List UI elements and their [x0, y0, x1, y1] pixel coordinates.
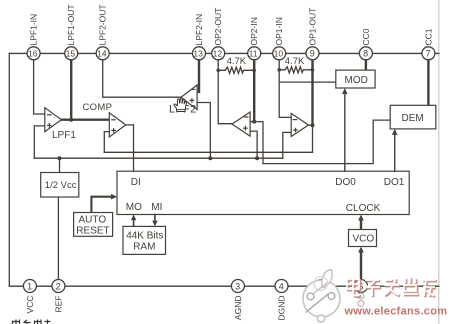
wire top pin bus	[9, 52, 439, 54]
node half-Vcc tap	[58, 156, 62, 160]
arrowhead VCO into CLOCK	[358, 215, 364, 221]
wire pin10 tap to MOD input	[279, 81, 336, 83]
pin 3 AGND	[231, 280, 244, 321]
svg-text:13: 13	[193, 49, 203, 59]
svg-text:8: 8	[363, 49, 368, 59]
wire VCO to CLOCK (thick arrow)	[360, 218, 362, 230]
wire MO arrow RAM to block	[133, 218, 135, 227]
node R2 right	[311, 68, 315, 72]
pin 4 DGND	[275, 280, 288, 321]
pin 15 LPF1-OUT	[65, 4, 78, 59]
wire pin12 OP2-OUT down to OP2 apex	[218, 60, 232, 124]
svg-text:MO: MO	[126, 202, 142, 213]
block DEM	[390, 105, 436, 129]
svg-text:AGND: AGND	[233, 296, 243, 321]
wire pin7 CC1 to DEM top (thick)	[427, 60, 429, 106]
svg-text:OP2-IN: OP2-IN	[249, 17, 259, 45]
svg-text:14: 14	[97, 49, 107, 59]
svg-text:7: 7	[426, 49, 431, 59]
block AUTO RESET	[74, 213, 113, 237]
wire half-Vcc block bottom to pin2 REF	[57, 197, 59, 280]
wire LPF1 output to COMP minus (thick)	[61, 118, 109, 120]
svg-text:VCO: VCO	[353, 234, 375, 245]
pin 13 LPF2-IN	[193, 14, 206, 60]
svg-text:15: 15	[66, 49, 76, 59]
svg-text:OP1-IN: OP1-IN	[274, 17, 284, 45]
svg-text:CC0: CC0	[361, 28, 371, 45]
wire pin15 LPF1-OUT vertical (thick)	[70, 60, 72, 120]
pin 14 LPF2-OUT	[96, 4, 109, 59]
svg-text:AUTO: AUTO	[79, 215, 107, 226]
svg-text:OP1-OUT: OP1-OUT	[308, 8, 318, 46]
node LPF1 out / pin15	[69, 118, 73, 122]
pin 6 OSC	[355, 280, 368, 293]
op-amp OP2	[232, 112, 250, 136]
pin 10 OP1-IN	[273, 17, 286, 60]
mouse hand cursor over LPF2	[174, 98, 187, 112]
block digital core U1	[117, 171, 409, 214]
wire pin16 to LPF1 minus input	[34, 60, 45, 114]
block VCO	[349, 230, 377, 247]
node R2 left	[277, 68, 281, 72]
arrowhead pin6 into VCO	[358, 247, 364, 253]
svg-text:COMP: COMP	[83, 102, 113, 113]
svg-text:DO1: DO1	[384, 177, 405, 188]
svg-text:44K Bits: 44K Bits	[126, 231, 163, 242]
svg-text:MI: MI	[151, 202, 162, 213]
svg-text:LPF1-IN: LPF1-IN	[29, 14, 39, 46]
svg-text:4.7K: 4.7K	[285, 56, 305, 67]
svg-text:12: 12	[213, 49, 223, 59]
svg-text:CC1: CC1	[423, 28, 433, 45]
svg-text:LPF2-OUT: LPF2-OUT	[98, 4, 108, 45]
op-amp COMP	[83, 102, 126, 137]
node R1 right	[252, 69, 256, 73]
wire pin6 to VCO (thick arrow)	[360, 250, 362, 280]
wire OP2 plus input down to node B rail	[250, 131, 257, 158]
svg-text:VCC: VCC	[25, 296, 35, 314]
svg-text:4.7K: 4.7K	[227, 56, 247, 67]
block 44K Bits RAM	[123, 226, 166, 254]
pin 5 (behind watermark logo)	[315, 280, 328, 293]
wire DO0 up to MOD (arrow)	[344, 91, 346, 171]
wire LPF1 plus input to node B rail	[34, 126, 45, 158]
watermark logo circle (elecfans)	[303, 270, 340, 323]
block MOD	[336, 70, 375, 88]
op-amp OP1	[291, 113, 308, 136]
wire left VCC rail	[8, 53, 10, 286]
wire COMP plus input to node A rail	[104, 132, 109, 153]
block half Vcc	[41, 173, 79, 198]
wire bottom pin bus	[9, 285, 439, 287]
watermark small rings below pin 6	[358, 293, 364, 299]
node LPF2 plus on B rail	[208, 156, 212, 160]
svg-text:RAM: RAM	[133, 242, 155, 253]
wire DEM output to OP2 minus node	[254, 120, 390, 164]
pin 12 OP2-OUT	[212, 8, 225, 60]
svg-text:DO0: DO0	[335, 177, 356, 188]
frame right border	[438, 0, 440, 324]
pin 8 CC0	[359, 28, 372, 60]
svg-text:DI: DI	[131, 177, 141, 188]
svg-text:LPF1: LPF1	[52, 130, 76, 141]
wire DO1 up to DEM (arrow)	[394, 132, 396, 171]
wire MI arrow block to RAM	[154, 215, 156, 224]
wire LPF2 plus input down to node B rail	[197, 103, 210, 159]
svg-text:11: 11	[249, 49, 258, 59]
pin 1 VCC	[23, 280, 36, 314]
resistor R2 4.7K	[279, 67, 312, 73]
node pin11 OP2 minus	[252, 120, 256, 124]
wire pin9 OP1-OUT vertical (thick)	[311, 60, 313, 125]
pin 9 OP1-OUT	[306, 8, 319, 60]
wire AUTO RESET to block (arrow)	[91, 197, 113, 213]
svg-text:www.elecfans.com: www.elecfans.com	[344, 305, 448, 317]
op-amp LPF2	[169, 85, 197, 116]
svg-text:16: 16	[28, 49, 38, 59]
arrowhead into block left from AUTO RESET	[111, 194, 117, 200]
arrowhead MI into RAM	[152, 221, 157, 227]
op-amp LPF1	[45, 108, 77, 141]
wire pin11 OP2-IN vertical (thick)	[253, 60, 255, 122]
svg-text:CLOCK: CLOCK	[346, 203, 381, 214]
svg-text:RESET: RESET	[76, 225, 109, 236]
svg-text:LPF2-IN: LPF2-IN	[194, 14, 204, 46]
resistor R1 4.7K	[218, 67, 254, 73]
svg-text:DGND: DGND	[277, 296, 287, 321]
wire pin10 OP1-IN to OP1 minus input	[279, 60, 291, 118]
arrowhead DO1 into DEM	[392, 129, 398, 135]
svg-text:DEM: DEM	[402, 113, 424, 124]
wire pin8 CC0 to MOD top (thick)	[365, 60, 367, 70]
wire pin11 node jog into OP2 minus input	[250, 121, 254, 123]
pin 7 CC1	[422, 28, 435, 60]
svg-text:LPF1-OUT: LPF1-OUT	[66, 4, 76, 45]
pin 2 REF	[52, 280, 65, 313]
watermark big text white core layer	[347, 277, 436, 296]
wire node B half-Vcc rail	[34, 157, 282, 159]
wire half-Vcc block top tap	[59, 158, 61, 172]
svg-text:9: 9	[310, 49, 315, 59]
wire node B rail up to OP1 plus input	[283, 132, 291, 158]
arrowhead MO into block	[131, 215, 136, 221]
node OP1 out / pin9	[311, 123, 315, 127]
wire pin14 LPF2-OUT to LPF2 apex	[103, 60, 181, 97]
wire pin9 line down to node A rail	[312, 125, 314, 152]
node R1 left	[216, 69, 220, 73]
svg-text:4: 4	[279, 281, 284, 291]
svg-text:1/2 Vcc: 1/2 Vcc	[45, 180, 77, 191]
node junction dots	[58, 68, 315, 160]
wire OP1 apex jog to pin9 line	[309, 124, 313, 126]
pin 11 OP2-IN	[248, 17, 261, 60]
wire COMP output down to DI input	[126, 125, 134, 171]
bottom left cropped caption text	[13, 320, 51, 324]
svg-text:3: 3	[235, 281, 240, 291]
svg-text:REF: REF	[54, 296, 64, 313]
svg-text:1: 1	[27, 281, 32, 291]
svg-text:MOD: MOD	[345, 75, 368, 86]
svg-text:2: 2	[56, 281, 61, 291]
wire pin13 LPF2-IN vertical (thick)	[198, 60, 200, 92]
svg-text:10: 10	[274, 49, 284, 59]
svg-text:OP2-OUT: OP2-OUT	[213, 8, 223, 46]
wire pin13 jog into LPF2 minus input	[197, 91, 199, 93]
arrowhead DO0 into MOD	[342, 88, 348, 94]
node OP2 plus on B rail	[255, 156, 259, 160]
watermark big text 电子发烧友 (stylized strokes, emboss shadow layer)	[348, 278, 437, 297]
wire node A rail COMP plus to OP1 output	[104, 151, 312, 153]
pin 16 LPF1-IN	[27, 14, 40, 60]
